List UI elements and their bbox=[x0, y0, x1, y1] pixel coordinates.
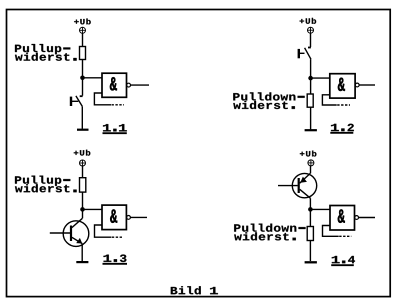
wire U3 second input elbow bbox=[95, 225, 112, 237]
wire R1 to node A bbox=[82, 60, 84, 78]
op-amp U2 NAND gate box bbox=[330, 74, 355, 98]
wire R3 to node C bbox=[82, 192, 84, 209]
wire U1 output bbox=[131, 84, 150, 86]
op-amp U4 NAND gate box bbox=[330, 206, 355, 231]
ground (1.4) bbox=[305, 261, 317, 263]
wire Q1 emitter to ground bbox=[81, 244, 83, 262]
Q1 emitter diagonal with arrow bbox=[72, 237, 82, 243]
wire node A to switch S1 bbox=[82, 78, 84, 96]
wire supply to R1 bbox=[82, 33, 84, 46]
U1 output inversion bubble bbox=[127, 83, 131, 87]
wire node D to R4 bbox=[309, 209, 311, 226]
U1 & symbol bbox=[110, 77, 117, 90]
label +Ub (1.1) bbox=[74, 19, 91, 25]
transistor Q2 circle bbox=[292, 173, 316, 197]
resistor R3 bbox=[80, 178, 86, 192]
wire node B to U2 input bbox=[311, 77, 330, 79]
transistor Q1 base bar bbox=[70, 226, 72, 242]
wire Q2 base bbox=[278, 185, 298, 187]
transistor Q2 base bar bbox=[298, 178, 300, 193]
caption Bild 1 bbox=[171, 286, 218, 294]
wire U2 output bbox=[359, 84, 375, 86]
wire R4 to ground bbox=[309, 241, 311, 262]
switch S2 actuator bar bbox=[298, 49, 300, 58]
Q1 collector diagonal bbox=[72, 218, 83, 227]
label +Ub (1.2) bbox=[300, 18, 317, 24]
ground (1.3) bbox=[76, 261, 88, 263]
label Pullup-widerst. (1.3) bbox=[15, 176, 77, 193]
wire U4 second input elbow bbox=[323, 226, 339, 237]
Q2 emitter diagonal with arrow bbox=[300, 173, 311, 183]
wire R2 to ground bbox=[310, 107, 312, 129]
label Pullup-widerst. (1.1) bbox=[15, 44, 77, 61]
label 1.2 bbox=[330, 124, 354, 133]
wire node C to U3 input bbox=[83, 208, 103, 210]
wire U4 output bbox=[359, 217, 376, 219]
U4 output inversion bubble bbox=[355, 216, 359, 220]
U2 output inversion bubble bbox=[355, 83, 359, 87]
supply terminal +Ub (1.3) bbox=[80, 160, 86, 166]
transistor Q1 circle bbox=[63, 221, 89, 247]
label 1.4 bbox=[331, 256, 355, 265]
wire U3 output bbox=[130, 216, 147, 218]
wire supply to switch S2 bbox=[310, 33, 312, 47]
resistor R4 bbox=[307, 227, 313, 241]
node A junction bbox=[80, 76, 85, 81]
wire S1 to ground bbox=[81, 106, 83, 128]
ground (1.1) bbox=[77, 129, 89, 131]
op-amp U1 NAND gate box bbox=[102, 73, 127, 97]
node B junction bbox=[308, 76, 313, 81]
wire node D to U4 input bbox=[310, 208, 330, 210]
dotted further-inputs line (1.4) bbox=[339, 235, 351, 237]
switch S2 fixed contact tick bbox=[308, 47, 311, 49]
dotted further-inputs line (1.2) bbox=[337, 104, 350, 106]
wire U1 second input elbow bbox=[94, 93, 111, 105]
switch S1 fixed contact tick bbox=[80, 95, 83, 97]
switch S2 blade bbox=[305, 48, 311, 60]
U4 & symbol bbox=[338, 209, 345, 222]
wire Q1 base bbox=[50, 232, 70, 234]
wire Q2 collector to node D bbox=[309, 198, 311, 209]
wire supply to Q2 emitter bbox=[310, 166, 312, 174]
wire node A to U1 input bbox=[83, 77, 103, 79]
supply terminal +Ub (1.1) bbox=[80, 27, 86, 33]
dotted further-inputs line (1.1) bbox=[112, 104, 125, 106]
label +Ub (1.3) bbox=[74, 150, 91, 156]
supply terminal +Ub (1.4) bbox=[308, 160, 314, 166]
node D junction bbox=[308, 207, 313, 212]
wire U2 second input elbow bbox=[322, 95, 336, 105]
U3 output inversion bubble bbox=[127, 216, 131, 220]
label +Ub (1.4) bbox=[300, 151, 317, 157]
label 1.3 bbox=[103, 255, 128, 264]
ground (1.2) bbox=[305, 129, 317, 131]
switch S1 blade bbox=[76, 96, 82, 107]
supply terminal +Ub (1.2) bbox=[308, 27, 314, 33]
wire supply to R3 bbox=[82, 166, 84, 178]
label Pulldown-widerst. (1.4) bbox=[234, 224, 305, 241]
switch S1 actuator bar bbox=[70, 97, 72, 106]
resistor R1 bbox=[80, 47, 86, 60]
U2 & symbol bbox=[338, 78, 345, 91]
wire S2 to node B bbox=[310, 59, 312, 78]
Q2 collector diagonal bbox=[300, 189, 311, 198]
wire node B to R2 bbox=[310, 78, 312, 94]
switch S1 actuator rod bbox=[71, 100, 78, 102]
switch S2 actuator rod bbox=[299, 52, 305, 54]
U3 & symbol bbox=[110, 209, 117, 222]
op-amp U3 NAND gate box bbox=[102, 205, 126, 230]
label Pulldown-widerst. (1.2) bbox=[233, 92, 304, 109]
label 1.1 bbox=[103, 124, 127, 133]
wire Q1 collector to node C bbox=[82, 209, 84, 218]
dotted further-inputs line (1.3) bbox=[112, 236, 124, 238]
resistor R2 bbox=[307, 94, 313, 107]
node C junction bbox=[80, 207, 85, 212]
